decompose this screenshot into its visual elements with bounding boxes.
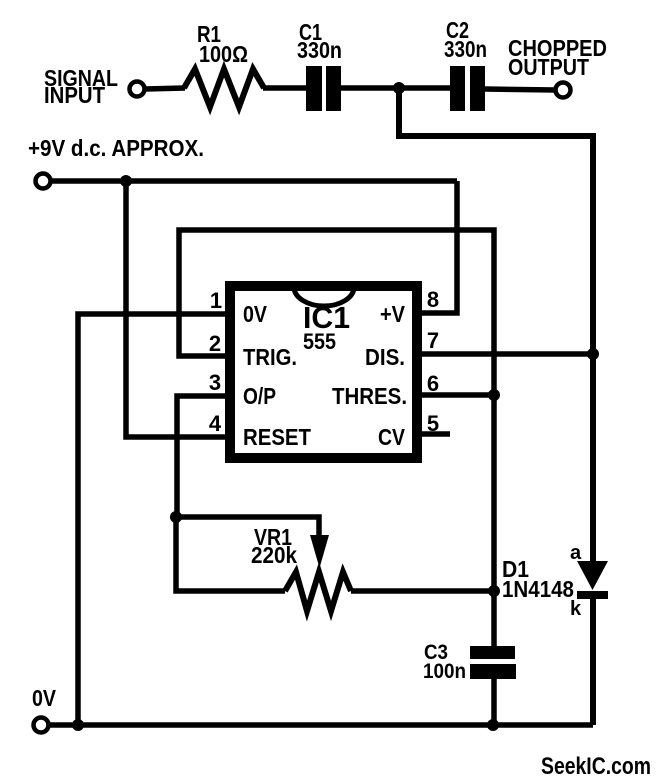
wire pin 3 down to VR1 [177, 396, 225, 517]
svg-text:TRIG.: TRIG. [243, 344, 297, 370]
wire pin 5 stub [422, 431, 450, 437]
wire pin7 junction to diode anode [590, 354, 596, 563]
node pin 7 junction [587, 348, 599, 360]
node VR1 right junction [488, 585, 500, 597]
svg-text:DIS.: DIS. [365, 344, 405, 370]
capacitor C1 [306, 66, 341, 111]
svg-text:+9V d.c. APPROX.: +9V d.c. APPROX. [28, 135, 204, 161]
svg-text:0V: 0V [32, 685, 57, 711]
node junction C1-C2 [393, 82, 405, 94]
svg-text:8: 8 [427, 287, 439, 312]
node pin 6 junction [488, 389, 500, 401]
wire 0V rail [49, 722, 593, 728]
svg-text:330n: 330n [444, 36, 487, 62]
label CHOPPED OUTPUT [508, 35, 607, 80]
svg-text:CV: CV [378, 424, 406, 450]
wire C3 to 0V rail [491, 679, 497, 725]
svg-text:6: 6 [427, 371, 439, 396]
capacitor C2 [450, 66, 485, 111]
svg-text:THRES.: THRES. [332, 383, 407, 409]
wire pin 2 to pin 6 rail [179, 230, 494, 646]
resistor R1 [184, 69, 264, 107]
wire +9V down to pin 8 [422, 181, 457, 313]
svg-text:2: 2 [209, 331, 221, 356]
terminal output [556, 83, 571, 98]
svg-text:OUTPUT: OUTPUT [508, 54, 589, 80]
wire pin 6 [422, 392, 494, 398]
label D1 1N4148 [502, 556, 574, 602]
wire pin 1 to 0V rail [78, 314, 225, 725]
terminal 0V [34, 718, 49, 733]
svg-text:1N4148: 1N4148 [502, 576, 574, 602]
svg-text:100n: 100n [423, 660, 466, 683]
svg-text:INPUT: INPUT [44, 82, 105, 108]
svg-text:220k: 220k [251, 542, 297, 568]
node pin 3 / VR1 junction [170, 511, 182, 523]
wire VR1 wiper [176, 517, 319, 540]
node 0V rail C3 junction [487, 719, 499, 731]
svg-text:RESET: RESET [243, 424, 311, 450]
potentiometer VR1 [285, 572, 351, 611]
wire VR1 right to pin6 branch [351, 588, 494, 594]
VR1 wiper arrowhead [310, 535, 329, 568]
wire +9V rail [51, 178, 457, 184]
diode D1 [577, 561, 608, 599]
op-amp IC1 555 box [230, 286, 417, 458]
wire VR1 left leg [176, 517, 285, 591]
wire +9V junction down to pin 4 [126, 181, 225, 437]
label SIGNAL INPUT [44, 65, 118, 108]
terminal +9V [36, 174, 51, 189]
svg-text:5: 5 [427, 411, 439, 436]
svg-text:555: 555 [303, 329, 336, 354]
IC1 notch [294, 287, 354, 306]
node 0V rail left junction [72, 719, 84, 731]
label C1 330n [297, 19, 342, 63]
svg-text:SeekIC.com: SeekIC.com [541, 753, 651, 780]
svg-text:0V: 0V [243, 301, 268, 327]
wire C1 to C2 [341, 85, 450, 91]
svg-text:4: 4 [209, 411, 222, 436]
label R1 100ohm [197, 21, 248, 67]
svg-text:1: 1 [210, 288, 222, 313]
svg-text:O/P: O/P [243, 383, 276, 409]
wire R1 to C1 [263, 85, 306, 91]
label VR1 220k [251, 524, 297, 568]
svg-text:+V: +V [380, 301, 406, 327]
wire input to R1 [145, 88, 185, 89]
terminal input [130, 82, 145, 97]
svg-text:100Ω: 100Ω [199, 41, 248, 67]
svg-text:a: a [570, 542, 582, 564]
svg-text:3: 3 [209, 370, 221, 395]
label C3 100n [423, 641, 466, 683]
svg-text:7: 7 [427, 328, 439, 353]
capacitor C3 [470, 646, 516, 679]
label C2 330n [444, 17, 487, 62]
svg-text:330n: 330n [297, 37, 342, 63]
wire junction down and right to diode branch [399, 88, 593, 354]
wire diode to 0V rail [590, 599, 596, 725]
wire pin 7 to diode branch [422, 351, 593, 357]
node +9V junction [120, 175, 132, 187]
wire C2 to output terminal [485, 89, 556, 90]
